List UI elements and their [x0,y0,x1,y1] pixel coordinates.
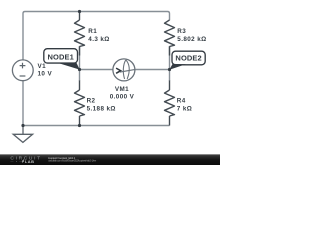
node NODE1 flag [44,49,80,70]
junction dot R2 bottom [78,124,81,127]
svg-text:VM1: VM1 [115,86,129,93]
wire: bottom rail from ground node to R2 and R4 bottoms [23,125,170,127]
resistor R1 [75,12,85,56]
wire: NODE1 junction down to R2 top [79,70,81,82]
watermark text lines [48,156,96,163]
label R1 value [88,28,109,43]
svg-text:R3: R3 [177,28,186,35]
junction dot NODE1 [78,68,81,71]
label R2 value [87,98,116,113]
wire: V1 minus terminal down to ground node [22,81,24,126]
watermark logo CIRCUIT LAB [10,155,40,163]
wire: NODE1 junction to VM1 left terminal [80,69,114,71]
junction dot at R1 top [78,10,81,13]
svg-text:4.3 kΩ: 4.3 kΩ [88,36,109,43]
svg-text:10 V: 10 V [38,71,53,78]
svg-text:—•—: —•— [10,160,23,164]
wire: V1 plus terminal up, across top, down to R3 top [23,12,170,60]
junction dot NODE2 [168,68,171,71]
junction dot ground rail left [21,124,24,127]
wire: R3 bottom lead to NODE2 junction [169,46,171,70]
svg-text:NODE1: NODE1 [48,52,74,61]
voltage source V1 [12,60,33,81]
voltmeter VM1 [113,59,135,81]
svg-text:R4: R4 [177,98,186,105]
ground [13,126,32,143]
watermark banner [0,154,220,165]
wire: VM1 right terminal to NODE2 junction [135,69,170,71]
svg-text:LAB: LAB [25,159,34,164]
wire: R1 bottom lead to NODE1 junction [79,46,81,70]
label R3 value [177,28,206,43]
resistor R3 [165,20,175,56]
svg-text:5.188 kΩ: 5.188 kΩ [87,106,116,113]
resistor R2 [75,81,85,126]
label VM1 value [110,86,135,101]
label V1 value [38,63,53,78]
resistor R4 [165,81,175,126]
svg-text:5.802 kΩ: 5.802 kΩ [177,36,206,43]
svg-text:NODE2: NODE2 [175,54,201,63]
svg-text:0.000 V: 0.000 V [110,94,135,101]
svg-text:circuitlab.com/c/dcb6bcae552/l: circuitlab.com/c/dcb6bcae552/looptest-la… [48,159,96,163]
svg-text:R2: R2 [87,98,96,105]
svg-text:V1: V1 [38,63,47,70]
wire: NODE2 junction down to R4 top [169,70,171,82]
svg-text:7 kΩ: 7 kΩ [177,106,192,113]
svg-text:R1: R1 [88,28,97,35]
node NODE2 flag [169,51,205,69]
label R4 value [177,98,192,113]
